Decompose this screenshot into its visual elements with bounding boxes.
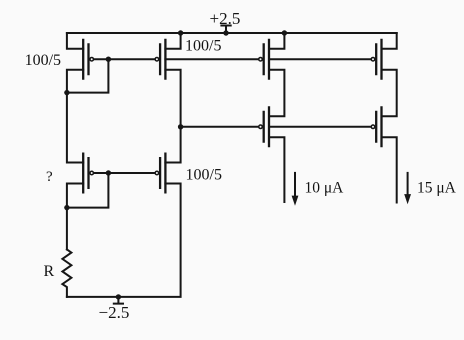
svg-text:R: R	[44, 263, 55, 280]
svg-text:100/5: 100/5	[185, 37, 221, 54]
svg-text:100/5: 100/5	[186, 166, 222, 183]
svg-text:+2.5: +2.5	[210, 9, 241, 28]
svg-text:100/5: 100/5	[25, 52, 61, 69]
svg-text:10 μA: 10 μA	[305, 180, 345, 197]
svg-text:?: ?	[46, 169, 53, 185]
svg-text:−2.5: −2.5	[99, 303, 130, 322]
svg-text:15 μA: 15 μA	[417, 180, 457, 197]
